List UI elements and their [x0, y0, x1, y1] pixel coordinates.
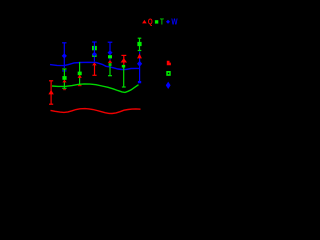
green open square right column — [166, 71, 170, 76]
legend green square — [155, 20, 158, 23]
green square marker point 6 — [122, 65, 125, 68]
green square marker point 3 — [78, 72, 82, 76]
blue diamond marker point 5 — [108, 50, 113, 55]
red bottom tick point 2c — [63, 89, 66, 91]
red error bar point 1 x=51 — [49, 81, 53, 104]
red error bar point 6 x=123.7 — [121, 55, 126, 65]
blue diamond right column — [166, 82, 171, 89]
blue diamond marker point 4 — [92, 52, 97, 57]
red marker point 4c — [92, 62, 97, 65]
blue error bar point 4 x=94.4 — [92, 42, 97, 62]
green error bar point 5 lower — [108, 66, 112, 76]
red model curve Q — [51, 109, 141, 114]
svg-text:Q: Q — [148, 17, 153, 26]
red error bar point 4c — [92, 65, 96, 75]
red bottom cap point 3 — [78, 85, 82, 87]
red marker right column x=168.7 — [167, 61, 171, 65]
green block point 5b — [109, 63, 112, 66]
green square marker point 4a x=94.4 — [92, 46, 97, 50]
red marker point 5 — [108, 60, 112, 63]
legend red triangle — [142, 20, 147, 24]
green square marker point 5 — [108, 55, 112, 58]
red triangle marker point 1 — [48, 90, 53, 95]
red triangle marker point 7 — [137, 54, 142, 59]
legend blue diamond — [166, 20, 170, 24]
blue error bar point 2 x=64.3 — [62, 43, 66, 71]
blue bottom cap point 7b — [138, 81, 141, 83]
red marker point 3 — [78, 75, 82, 78]
green square marker point 4b behind diamond — [92, 54, 96, 57]
svg-text:T: T — [160, 17, 164, 26]
blue error bar point 5 x=110 — [108, 42, 113, 60]
blue error bar point 7b x=139.6 — [139, 52, 141, 82]
svg-text:W: W — [171, 17, 178, 26]
green error bar point 6 — [122, 67, 126, 87]
green square marker point 2b — [62, 76, 66, 80]
blue diamond marker point 7b — [137, 61, 142, 67]
green error bar point 7 x=139.5 — [138, 38, 142, 50]
green error bar point 3 x=79.7 — [79, 62, 81, 85]
green model curve T — [52, 84, 139, 93]
red triangle marker point 6 — [121, 58, 127, 63]
green square marker point 7 — [137, 42, 141, 46]
red marker point 2c — [62, 80, 66, 83]
green error bar point 2b x=64.4 — [62, 69, 66, 89]
blue model curve W — [50, 62, 140, 69]
blue diamond marker point 2 — [62, 53, 67, 58]
